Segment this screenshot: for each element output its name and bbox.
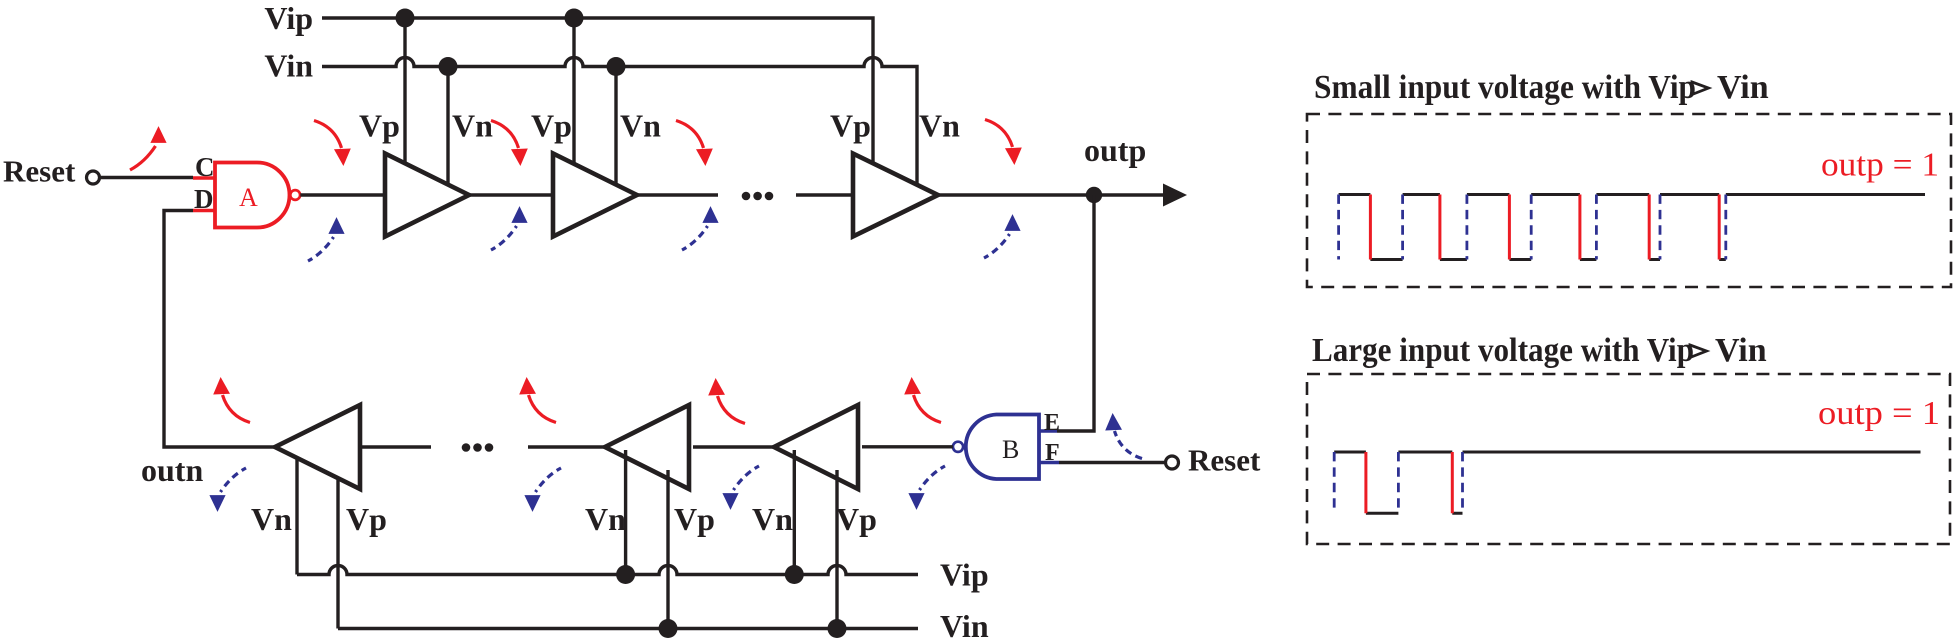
nand-gate A body (red): [215, 163, 290, 228]
nand-gate A output bubble: [290, 190, 300, 200]
wire Vp drop U6 to rail2: [835, 470, 838, 629]
nand-gate B output bubble: [953, 442, 963, 452]
svg-text:Vin: Vin: [940, 608, 989, 643]
svg-text:F: F: [1045, 440, 1060, 466]
junction Vip-Vp1: [396, 9, 415, 28]
arrow blue dashed up (E input): [1105, 413, 1142, 459]
arrow blue dashed down (U5 to U6): [722, 466, 759, 510]
wire Vp drop to U1: [403, 18, 406, 168]
wire U1 to U2: [469, 193, 557, 196]
greater-than triangle 1: [1692, 82, 1709, 95]
wire U6 to U5: [693, 445, 774, 448]
svg-text:outp: outp: [1084, 132, 1146, 168]
wire Vip bottom rail (hops at 338,668,837): [297, 566, 918, 575]
buffer U2: [553, 154, 637, 237]
arrow red up (U6 to B): [904, 377, 941, 423]
wire ellipsis to U4: [360, 445, 431, 448]
waveform 1 red falling edges: [1370, 195, 1719, 260]
svg-text:Reset: Reset: [1188, 443, 1261, 478]
junction outp: [1086, 187, 1102, 203]
svg-text:Vp: Vp: [674, 501, 715, 537]
junction rail2-U6: [828, 619, 847, 638]
waveform 2 red falling edges: [1366, 452, 1452, 513]
arrow blue dashed up (A to U1): [308, 217, 345, 261]
arrow red down (U3 to outp): [985, 120, 1022, 166]
wire U2 to ellipsis: [637, 193, 718, 196]
svg-text:Vp: Vp: [531, 108, 572, 144]
junction Vin-Vn1: [439, 57, 458, 76]
svg-text:outn: outn: [141, 452, 203, 488]
dashed box small input: [1307, 114, 1951, 287]
svg-text:E: E: [1044, 410, 1060, 436]
wire Reset to C: [100, 176, 194, 179]
terminal Reset left: [87, 171, 100, 184]
svg-text:B: B: [1002, 435, 1019, 464]
svg-text:Vin: Vin: [264, 48, 313, 84]
arrow red up (ellipsis to U5): [519, 377, 556, 423]
outp arrowhead: [1163, 184, 1187, 207]
wire Vn drop to U2: [614, 67, 617, 191]
arrow red up (U5 to U6): [708, 378, 745, 424]
arrow red down (U2 to U3): [676, 121, 713, 167]
svg-text:Vn: Vn: [251, 501, 292, 537]
wire Vip top rail with corner down to U3: [322, 18, 873, 168]
pin stub D (red): [193, 209, 216, 213]
svg-text:Vp: Vp: [346, 501, 387, 537]
svg-text:outp = 1: outp = 1: [1818, 395, 1940, 432]
wire Vn drop U6 to rail1: [793, 450, 796, 575]
pin stub E (blue): [1040, 429, 1057, 433]
arrow blue dashed up (U2 to U3): [682, 206, 719, 250]
arrow blue dashed up (U3 to outp): [984, 214, 1021, 258]
wire Vp drop U5 to rail2: [666, 470, 669, 629]
buffer U6 (bottom right): [774, 405, 858, 489]
arrow red down (A to U1): [314, 121, 351, 167]
buffer U3: [853, 154, 938, 237]
svg-text:Vip: Vip: [940, 557, 989, 593]
svg-text:Vn: Vn: [585, 501, 626, 537]
arrow red down (U1 to U2): [491, 121, 528, 167]
ellipsis bottom chain: [462, 443, 471, 452]
wire ellipsis to U3: [796, 193, 857, 196]
svg-text:A: A: [239, 183, 258, 212]
svg-text:Vp: Vp: [359, 108, 400, 144]
svg-text:Vp: Vp: [836, 501, 877, 537]
nand-gate B body (blue): [966, 415, 1039, 480]
svg-text:outp = 1: outp = 1: [1821, 147, 1939, 184]
arrow blue dashed up (U1 to U2): [491, 206, 528, 250]
junction rail2-U5: [659, 619, 678, 638]
arrow blue dashed down (U5 left): [524, 468, 561, 512]
wire outp down to nand B input E: [1057, 195, 1094, 431]
junction rail1-U6: [785, 565, 804, 584]
svg-text:Vin: Vin: [1717, 69, 1769, 106]
wire F to Reset right: [1059, 461, 1166, 464]
ellipsis top chain: [742, 192, 751, 201]
waveform 1 blue rising edges (dashed): [1339, 195, 1726, 260]
arrow blue dashed down (U6 to B): [908, 466, 945, 510]
wire A output to U1: [300, 193, 389, 196]
arrow red up (near Reset left): [130, 126, 167, 170]
waveform 2 blue rising edges (dashed): [1334, 452, 1462, 513]
wire Vin top rail (hops at x=405,574,873) with corner down to U3: [322, 58, 917, 190]
wire Vn drop to U1: [446, 67, 449, 190]
wire Vn drop U4 to rail1: [295, 452, 298, 575]
arrow blue dashed down (outn): [209, 468, 246, 512]
pin stub C (red): [193, 176, 216, 180]
arrow red up (outn to U4): [213, 377, 250, 423]
buffer U1: [385, 154, 469, 237]
waveform 2 black segments: [1334, 452, 1920, 513]
svg-text:Large input voltage with Vip: Large input voltage with Vip: [1312, 332, 1694, 369]
svg-text:Vn: Vn: [452, 108, 493, 144]
buffer U4 (bottom left): [275, 405, 360, 489]
wire Vin bottom rail: [338, 627, 918, 630]
greater-than triangle 2: [1690, 345, 1707, 358]
pin stub F (blue): [1040, 461, 1059, 465]
svg-text:Small input voltage with Vip: Small input voltage with Vip: [1314, 69, 1696, 106]
wire Vp drop U4 to rail2: [336, 470, 339, 629]
waveform 1 black segments: [1339, 195, 1925, 260]
wire D feedback from outn: [164, 211, 278, 448]
junction rail1-U5: [616, 565, 635, 584]
svg-text:Vp: Vp: [830, 108, 871, 144]
svg-text:Vip: Vip: [264, 0, 313, 36]
svg-text:Reset: Reset: [3, 154, 76, 189]
junction Vip-Vp2: [565, 9, 584, 28]
wire U5 to ellipsis: [528, 445, 605, 448]
wire U3 to outp arrow: [938, 193, 1164, 196]
dashed box large input: [1307, 374, 1950, 544]
junction Vin-Vn2: [607, 57, 626, 76]
terminal Reset right: [1166, 456, 1179, 469]
svg-text:Vn: Vn: [620, 108, 661, 144]
buffer U5 (bottom middle): [605, 405, 689, 489]
wire Vp drop to U2: [572, 18, 575, 168]
svg-text:Vn: Vn: [919, 108, 960, 144]
wire B output to U6: [862, 445, 953, 448]
wire Vn drop U5 to rail1: [624, 450, 627, 575]
svg-text:Vn: Vn: [752, 501, 793, 537]
svg-text:Vin: Vin: [1715, 332, 1767, 369]
